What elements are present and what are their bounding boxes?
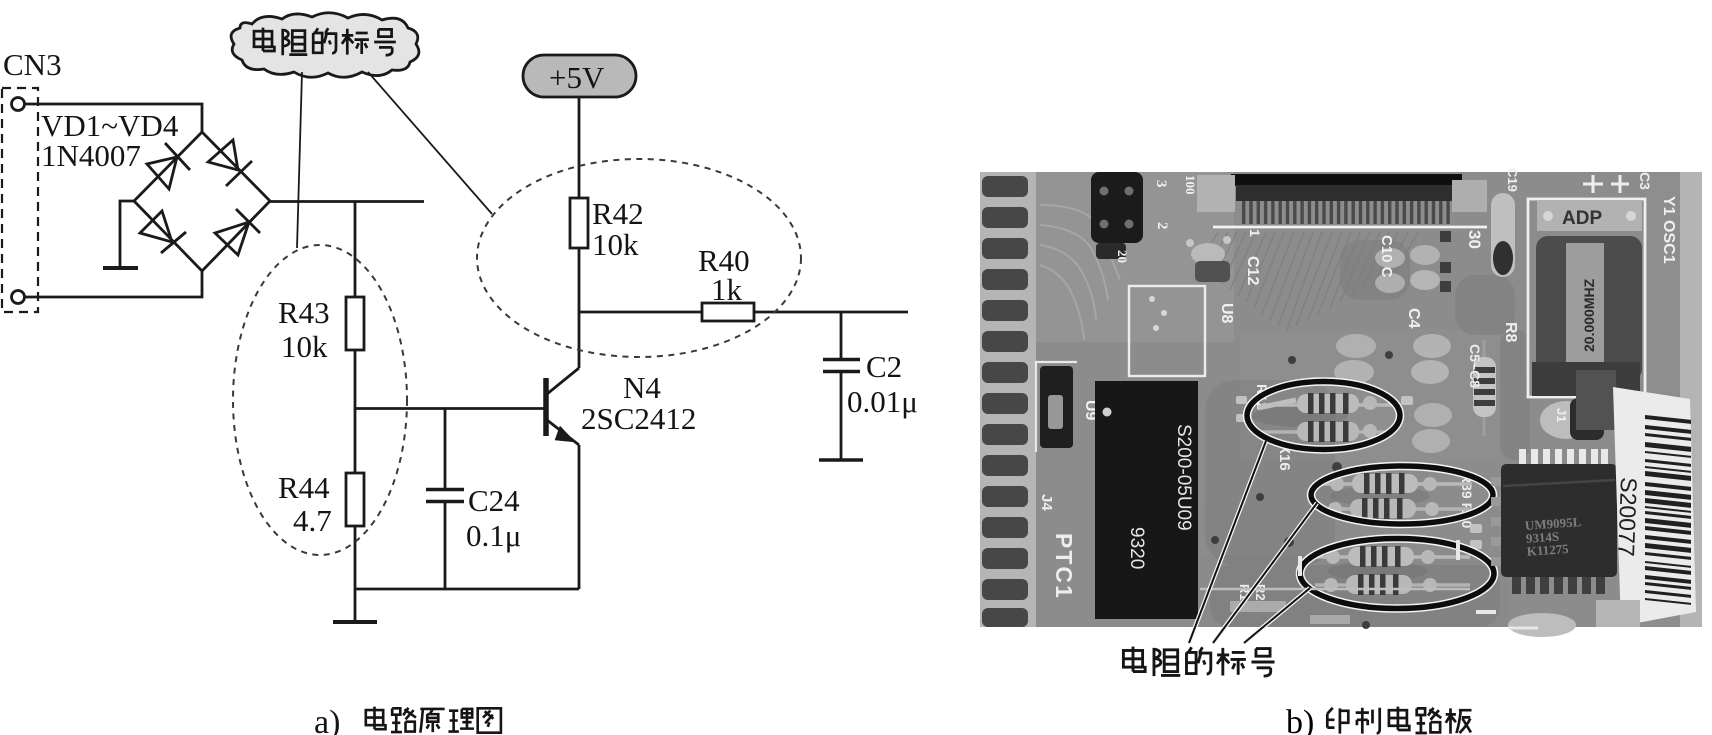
capacitor C2: [823, 360, 860, 460]
silk dashes bottom: [1300, 540, 1538, 628]
svg-text:C19: C19: [1505, 168, 1520, 192]
capacitor pair top (C10): [1375, 248, 1405, 268]
svg-text:C2: C2: [866, 349, 902, 384]
cloud text 电阻的标号: [254, 28, 396, 56]
callout pointer line to R43/R44 ellipse: [297, 72, 302, 248]
transistor N4 2SC2412: [546, 312, 579, 589]
resistor R43: [346, 297, 364, 350]
power +5V pill: [523, 55, 636, 97]
highlight ellipse 1: [1247, 382, 1400, 450]
electrolytic capsule: [1491, 193, 1515, 277]
svg-text:10k: 10k: [281, 329, 328, 364]
vias column: [1211, 231, 1451, 629]
resistor R8 vertical: [1473, 357, 1496, 417]
photo label 电阻的标号: [1123, 647, 1274, 676]
pointer line to ellipse 3: [1244, 588, 1310, 643]
diode bridge VD1~VD4 diamond: [134, 132, 270, 271]
svg-text:J4: J4: [1038, 494, 1055, 511]
svg-text:100: 100: [1183, 175, 1198, 195]
wire R44 to bottom rail: [354, 526, 357, 589]
svg-text:a): a): [314, 704, 340, 735]
svg-text:Y1 OSC1: Y1 OSC1: [1660, 196, 1677, 264]
connector CN3 dashed outline: [2, 88, 38, 312]
emitter arrow of N4: [555, 426, 575, 442]
svg-text:R8: R8: [1502, 322, 1519, 343]
ground main: [333, 620, 377, 624]
top connector pin block: [1236, 185, 1458, 201]
svg-text:b): b): [1286, 704, 1314, 735]
silk box U8: [1129, 286, 1205, 376]
svg-text:2: 2: [1154, 222, 1170, 230]
svg-text:R44: R44: [278, 470, 330, 505]
wire C24 branch: [444, 409, 447, 490]
wire bridge + output node (top rail): [270, 200, 424, 203]
svg-text:1k: 1k: [711, 272, 743, 307]
svg-text:U8: U8: [1218, 303, 1235, 324]
svg-text:20.000MHZ: 20.000MHZ: [1581, 278, 1597, 352]
highlight ellipse 2: [1311, 466, 1493, 524]
bottom rail wire: [355, 588, 579, 591]
svg-text:N4: N4: [623, 370, 661, 405]
board tone patch right of crystal: [1645, 172, 1702, 627]
connector side pads: [1197, 175, 1235, 212]
svg-text:9320: 9320: [1126, 527, 1147, 569]
capacitor cluster mid: [1413, 334, 1451, 358]
svg-text:R43: R43: [278, 295, 330, 330]
svg-text:S20077: S20077: [1613, 477, 1642, 557]
svg-text:2SC2412: 2SC2412: [581, 401, 696, 436]
edge connector strip: [980, 172, 1036, 627]
dashed ellipse around R43 R44: [233, 245, 407, 555]
board tone patch bottom center: [1200, 555, 1510, 627]
caption b characters 印制电路板: [1327, 707, 1471, 734]
svg-text:C3: C3: [1637, 172, 1653, 190]
board shading blotches: [1205, 240, 1530, 627]
crystal body Y1: [1536, 236, 1642, 381]
resistor R42: [570, 198, 588, 248]
IC S200-05U09: [1095, 381, 1198, 619]
capacitor cluster left: [1336, 334, 1376, 358]
svg-text:J1: J1: [1554, 408, 1569, 422]
resistor R40: [702, 303, 754, 321]
IC UM9095L: [1519, 449, 1608, 464]
svg-text:+5V: +5V: [549, 60, 605, 95]
svg-text:C12: C12: [1244, 256, 1261, 285]
resistor R44: [346, 473, 364, 526]
svg-text:C24: C24: [468, 483, 520, 518]
pads near ellipse 1: [1236, 396, 1482, 549]
wire to main ground: [354, 589, 357, 621]
svg-text:4.7: 4.7: [293, 503, 332, 538]
pointer line to ellipse 1: [1189, 441, 1266, 643]
trace fan below top connector: [1198, 232, 1418, 332]
capacitor C24: [426, 490, 464, 590]
board tone patch mid: [1240, 330, 1500, 460]
top connector pin comb: [1240, 201, 1454, 224]
svg-text:C10 C: C10 C: [1378, 235, 1395, 278]
board tone patch top-left: [1034, 172, 1234, 342]
crystal silk frame: [1528, 199, 1645, 397]
svg-text:C4: C4: [1405, 308, 1422, 329]
crystal shadow: [1532, 362, 1640, 396]
svg-text:ADP: ADP: [1562, 208, 1602, 229]
wire +5V to R42: [578, 97, 581, 198]
diode VD4 (bottom-right arm): [215, 209, 260, 255]
wire bridge left vertex to ground stub: [120, 201, 134, 267]
faint traces top-left: [1040, 205, 1120, 340]
svg-text:R42: R42: [592, 196, 644, 231]
white trace line under connector: [1213, 226, 1487, 229]
output wire collector node to right: [579, 311, 908, 314]
barcode label: [1613, 387, 1696, 626]
wire CN3 pin2 to bridge AC bottom: [25, 271, 202, 297]
bottom edge light pads: [1508, 613, 1576, 637]
svg-text:S200-05U09: S200-05U09: [1173, 424, 1194, 531]
jumper U9: [1036, 362, 1077, 452]
caption a characters 电路原理图: [366, 707, 501, 733]
resistor group in ellipse 2: [1322, 473, 1472, 519]
resistor group in ellipse 1: [1252, 393, 1392, 442]
edge connector fingers: [982, 176, 1028, 627]
highlight ellipse 3: [1300, 539, 1494, 609]
crystal label plate ADP: [1537, 201, 1642, 231]
CN3 pin 1 terminal: [12, 98, 25, 111]
ground at bridge: [103, 266, 138, 270]
wire R42 to collector node: [578, 248, 581, 312]
svg-text:1N4007: 1N4007: [41, 138, 141, 173]
C2 end bar: [819, 458, 863, 462]
jumper header J (2x2) top-left: [1091, 172, 1143, 243]
CN3 pin 2 terminal: [12, 291, 25, 304]
wire base node to transistor base: [355, 407, 544, 410]
wire C2 branch down: [840, 312, 843, 359]
svg-text:10k: 10k: [592, 227, 639, 262]
PCB photo base: [980, 172, 1702, 627]
svg-text:30: 30: [1465, 230, 1484, 249]
svg-text:20: 20: [1115, 250, 1130, 263]
board edge light band right: [1680, 172, 1702, 627]
svg-text:1: 1: [1247, 229, 1263, 237]
top silk marks near C3: [1583, 175, 1629, 193]
wire R43 to base node: [354, 350, 357, 473]
svg-text:CN3: CN3: [3, 47, 62, 82]
svg-text:K11275: K11275: [1526, 541, 1569, 559]
silk labels 3 2 100: [1115, 175, 1198, 263]
capacitor C12 blob: [1191, 243, 1225, 265]
svg-text:C5~C8: C5~C8: [1467, 344, 1483, 388]
svg-text:PTC1: PTC1: [1051, 533, 1077, 600]
diode VD3 (bottom-left arm): [140, 211, 186, 253]
svg-text:3: 3: [1153, 180, 1169, 188]
wire CN3 pin1 to bridge AC top: [25, 104, 202, 132]
callout cloud 电阻的标号: [231, 13, 419, 78]
diode VD1 (top-left arm): [147, 143, 190, 189]
resistor group in ellipse 3: [1315, 546, 1470, 595]
top connector body: [1231, 174, 1462, 186]
svg-text:0.01μ: 0.01μ: [847, 384, 918, 419]
pointer line to ellipse 2: [1213, 503, 1317, 643]
wire top rail down to R43: [354, 202, 357, 298]
J1 pad ellipse: [1540, 401, 1592, 439]
svg-text:0.1μ: 0.1μ: [466, 518, 521, 553]
callout pointer line to R42/R40 ellipse: [368, 72, 492, 214]
dashed ellipse around R42 R40: [477, 159, 801, 357]
diode VD2 (top-right arm): [208, 140, 252, 186]
